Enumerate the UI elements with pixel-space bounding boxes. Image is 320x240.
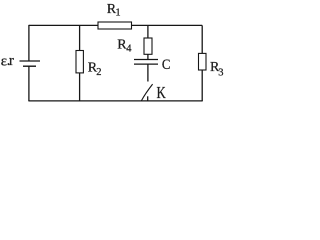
resistor R4 (144, 38, 152, 54)
battery long plate (20, 60, 41, 62)
wire mid branch upper (147, 25, 149, 38)
wire top-left segment (29, 24, 98, 26)
wire bottom (28, 100, 202, 102)
svg-text:C: C (162, 57, 171, 73)
svg-text:1: 1 (115, 7, 120, 18)
switch K blade (141, 84, 152, 101)
svg-text:2: 2 (96, 67, 101, 78)
wire R2 branch lower (79, 73, 81, 101)
svg-text:3: 3 (218, 67, 223, 78)
switch K lower stub (147, 96, 149, 101)
wire top-right segment (132, 24, 203, 26)
wire left upper (28, 25, 30, 61)
wire R4 to capacitor (147, 54, 149, 59)
wire right lower (201, 70, 203, 101)
svg-text:K: K (157, 85, 167, 103)
wire R2 branch upper (79, 25, 81, 50)
wire capacitor to switch (147, 64, 149, 81)
battery short plate (23, 65, 36, 67)
wire right upper (201, 25, 203, 53)
capacitor C bottom plate (134, 63, 158, 65)
capacitor C top plate (134, 59, 158, 61)
svg-text:4: 4 (126, 44, 132, 55)
svg-text:ε.r: ε.r (1, 53, 14, 70)
resistor R3 (199, 53, 207, 70)
resistor R2 (76, 51, 83, 73)
wire left lower (28, 66, 30, 101)
resistor R1 (98, 22, 132, 29)
